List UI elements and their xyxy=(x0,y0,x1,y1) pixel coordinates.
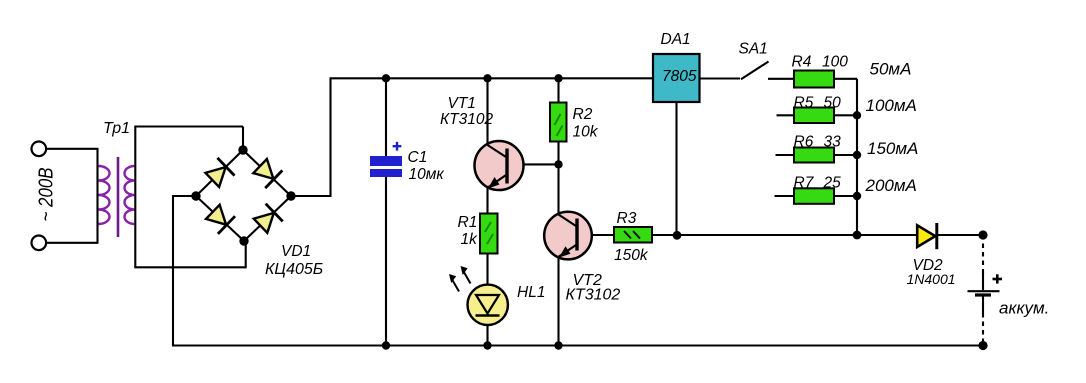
svg-text:R7: R7 xyxy=(794,174,815,191)
svg-text:DA1: DA1 xyxy=(661,31,691,48)
svg-text:КТ3102: КТ3102 xyxy=(566,287,621,304)
svg-text:R6: R6 xyxy=(794,134,814,151)
svg-text:50мА: 50мА xyxy=(870,60,912,79)
svg-text:КТ3102: КТ3102 xyxy=(440,111,493,128)
svg-text:10мк: 10мк xyxy=(409,166,445,183)
svg-text:R1: R1 xyxy=(458,214,478,231)
svg-text:100: 100 xyxy=(822,54,848,71)
svg-text:R5: R5 xyxy=(794,95,814,112)
svg-text:25: 25 xyxy=(823,174,842,191)
svg-text:C1: C1 xyxy=(408,149,428,166)
svg-text:VD1: VD1 xyxy=(281,243,311,260)
svg-text:50: 50 xyxy=(824,95,842,112)
svg-text:150мА: 150мА xyxy=(867,139,918,158)
svg-text:1k: 1k xyxy=(461,231,479,248)
svg-text:R2: R2 xyxy=(573,106,593,123)
svg-text:100мА: 100мА xyxy=(866,96,917,115)
svg-text:R3: R3 xyxy=(617,210,637,227)
svg-text:1N4001: 1N4001 xyxy=(907,271,956,287)
svg-text:VT1: VT1 xyxy=(448,95,476,112)
svg-text:КЦ405Б: КЦ405Б xyxy=(265,261,323,278)
svg-text:SA1: SA1 xyxy=(739,41,768,58)
svg-text:R4: R4 xyxy=(792,54,812,71)
svg-text:аккум.: аккум. xyxy=(999,299,1049,318)
svg-text:Тр1: Тр1 xyxy=(103,120,130,137)
svg-text:HL1: HL1 xyxy=(517,284,545,301)
svg-text:33: 33 xyxy=(824,134,842,151)
svg-text:10k: 10k xyxy=(573,124,599,141)
svg-text:150k: 150k xyxy=(614,247,649,264)
svg-text:200мА: 200мА xyxy=(865,176,917,195)
svg-text:7805: 7805 xyxy=(662,68,697,85)
svg-text:~ 200В: ~ 200В xyxy=(35,168,58,222)
